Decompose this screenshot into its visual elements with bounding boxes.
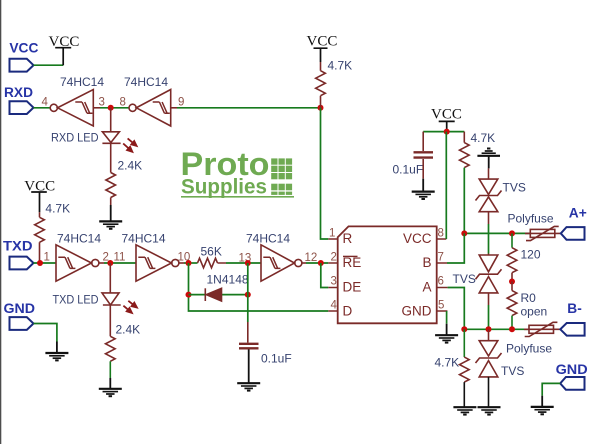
- wire B- row: [464, 328, 529, 330]
- svg-text:1: 1: [329, 228, 335, 240]
- inverter U1D 74HC14 (points right): [136, 245, 184, 281]
- IC pin stubs left: [328, 239, 337, 311]
- svg-text:4.7K: 4.7K: [328, 59, 353, 73]
- ground (under RXD 2.4K): [99, 221, 122, 228]
- junction node 10: [186, 260, 192, 266]
- polyfuse F1: [525, 226, 561, 240]
- wire node 12 to IC pin2: [306, 262, 328, 264]
- junction node 2: [107, 260, 113, 266]
- svg-text:A+: A+: [569, 206, 587, 221]
- net flag RXD: [10, 101, 34, 114]
- svg-text:3: 3: [331, 276, 337, 288]
- polyfuse F2: [524, 322, 560, 336]
- ground (left GND flag): [45, 353, 68, 360]
- svg-text:8: 8: [438, 228, 444, 240]
- svg-text:R0: R0: [521, 291, 537, 305]
- wire node 13 down to capacitor: [247, 263, 249, 322]
- capacitor 0.1uF (middle): [239, 344, 259, 349]
- inverter U1B 74HC14 (points left): [129, 90, 177, 127]
- inverter U1E 74HC14 (points right): [261, 245, 306, 281]
- net flag A+: [561, 227, 585, 240]
- wire GND flag to ground: [542, 383, 560, 395]
- ground (under TVS D3): [478, 407, 501, 414]
- wire diode row: [189, 294, 248, 296]
- svg-text:VCC: VCC: [24, 178, 55, 194]
- svg-text:TXD LED: TXD LED: [53, 293, 99, 307]
- svg-text:11: 11: [114, 252, 126, 264]
- junction B- left: [461, 326, 467, 332]
- svg-text:GND: GND: [556, 362, 588, 377]
- svg-text:2.4K: 2.4K: [118, 159, 143, 173]
- net flag GND (right): [560, 377, 584, 390]
- IC pin stubs right: [437, 239, 448, 311]
- svg-text:0.1uF: 0.1uF: [393, 163, 424, 177]
- TVS D1 (bidirectional): [476, 168, 502, 224]
- wire VCC rail down to IC pin 8: [445, 132, 447, 239]
- LED TXD arrows: [123, 301, 136, 313]
- svg-text:Polyfuse: Polyfuse: [506, 342, 552, 356]
- svg-text:VCC: VCC: [403, 231, 432, 246]
- net flag TXD: [10, 257, 34, 270]
- svg-text:4.7K: 4.7K: [435, 356, 460, 370]
- svg-text:RXD LED: RXD LED: [51, 131, 99, 145]
- TVS D2 (bidirectional, A to B): [476, 254, 502, 306]
- svg-text:74HC14: 74HC14: [124, 75, 168, 89]
- wire GND flag to ground: [34, 324, 57, 342]
- wire down to IC pin 1: [321, 108, 329, 239]
- svg-text:9: 9: [178, 97, 184, 109]
- window edge line: [0, 0, 1, 444]
- svg-text:VCC: VCC: [307, 34, 338, 50]
- svg-text:B: B: [422, 255, 431, 270]
- resistor 4.7K (A pullup): [459, 132, 469, 168]
- svg-text:74HC14: 74HC14: [246, 232, 290, 246]
- junction node 13: [245, 260, 251, 266]
- wire node 13: [226, 262, 261, 264]
- svg-text:DE: DE: [343, 280, 362, 295]
- wire VCC flag to power symbol: [34, 64, 64, 66]
- ground (under TXD 2.4K): [99, 389, 122, 396]
- svg-text:74HC14: 74HC14: [57, 232, 101, 246]
- svg-text:Supplies: Supplies: [181, 176, 267, 199]
- IC U2 RS-485 transceiver: [338, 226, 437, 323]
- wire node10 down to diode row: [189, 263, 329, 311]
- svg-text:VCC: VCC: [9, 40, 38, 55]
- wire to ground: [110, 198, 112, 206]
- wire cap to ground: [248, 350, 250, 384]
- resistor 2.4K (TXD): [106, 336, 116, 361]
- junction 120/R0: [509, 279, 515, 285]
- wire cap to ground: [422, 159, 424, 179]
- svg-text:6: 6: [438, 276, 444, 288]
- TVS D3 (bidirectional, B to GND): [476, 329, 502, 407]
- wire TVS D2 to B- row: [488, 305, 490, 329]
- svg-text:RXD: RXD: [4, 85, 33, 100]
- svg-text:A: A: [422, 280, 431, 295]
- wire IC pin5 to ground: [446, 311, 448, 324]
- ground inverted (above TVS D1): [477, 149, 500, 169]
- resistor 120 (termination): [507, 233, 517, 281]
- wire pin9 to R pullup node: [177, 107, 321, 109]
- wire TVS D1 across A+ row to TVS D2: [488, 224, 490, 254]
- ground (right GND flag): [531, 407, 554, 414]
- junction R-node: [318, 105, 324, 111]
- resistor 4.7K (B pulldown): [459, 329, 469, 407]
- resistor 56K (horizontal): [198, 258, 227, 268]
- svg-text:D: D: [343, 304, 353, 319]
- net flag B-: [560, 323, 584, 336]
- junction B- fuse node: [509, 326, 515, 332]
- svg-text:2: 2: [331, 252, 337, 264]
- junction VCC rail: [444, 129, 450, 135]
- svg-text:VCC: VCC: [49, 34, 80, 50]
- inverter U1A 74HC14 (points left, bubble at output): [50, 90, 100, 127]
- ground (under 4.7K): [453, 407, 476, 414]
- svg-text:56K: 56K: [201, 245, 222, 259]
- net flag VCC (top-left): [10, 59, 34, 72]
- svg-text:3: 3: [99, 97, 105, 109]
- svg-text:120: 120: [521, 248, 541, 262]
- svg-text:1: 1: [44, 252, 50, 264]
- logo ProtoSupplies: [181, 146, 295, 199]
- LED TXD (anode up): [102, 263, 121, 336]
- diode 1N4148 (points left): [205, 288, 221, 301]
- wire node 10: [184, 262, 198, 264]
- wire node 2/11: [104, 262, 136, 264]
- svg-text:R: R: [343, 231, 353, 246]
- power VCC symbol (mid-left, TXD pullup): [31, 192, 47, 212]
- svg-text:GND: GND: [4, 301, 36, 316]
- wire IC pin7 up to A+ row: [447, 233, 464, 263]
- resistor R0 open: [507, 282, 517, 330]
- junction TXD node: [37, 260, 43, 266]
- ground (under middle 0.1uF): [237, 383, 260, 390]
- svg-text:74HC14: 74HC14: [122, 232, 166, 246]
- ground (under bypass cap): [412, 192, 435, 199]
- svg-text:4.7K: 4.7K: [45, 202, 70, 216]
- resistor 4.7K pullup (TXD): [35, 212, 45, 263]
- power VCC symbol (top-middle): [314, 48, 328, 62]
- svg-text:B-: B-: [567, 301, 582, 316]
- wire VCC rail: [423, 131, 464, 133]
- LED RXD arrows: [123, 138, 136, 151]
- svg-text:5: 5: [438, 300, 444, 312]
- svg-text:VCC: VCC: [431, 107, 462, 123]
- wire node 12 down to IC pin3: [321, 263, 329, 288]
- junction node 3: [108, 105, 114, 111]
- wire TXD flag to inverter: [34, 262, 57, 264]
- wire to ground: [109, 361, 111, 378]
- svg-text:4: 4: [42, 97, 49, 109]
- capacitor 0.1uF (bypass): [422, 132, 424, 151]
- wire IC pin6 down to B- row: [448, 288, 465, 330]
- svg-text:1N4148: 1N4148: [207, 273, 249, 287]
- wire 4.7K down to A+ row: [463, 168, 465, 234]
- junction A+ left: [461, 230, 467, 236]
- svg-text:2.4K: 2.4K: [116, 323, 141, 337]
- wire A+ row: [464, 232, 530, 234]
- svg-text:TVS: TVS: [453, 272, 476, 286]
- wire node 3: [100, 107, 129, 109]
- svg-text:74HC14: 74HC14: [60, 75, 104, 89]
- svg-text:TXD: TXD: [3, 239, 33, 254]
- power VCC symbol (top-left): [55, 48, 71, 65]
- svg-text:open: open: [521, 305, 548, 319]
- svg-text:4.7K: 4.7K: [471, 131, 496, 145]
- inverter U1C 74HC14 (points right): [56, 245, 104, 281]
- power VCC symbol (right): [439, 121, 455, 131]
- svg-text:7: 7: [438, 252, 444, 264]
- svg-text:8: 8: [120, 97, 126, 109]
- junction diode left: [186, 292, 192, 298]
- svg-text:0.1uF: 0.1uF: [261, 352, 292, 366]
- svg-text:4: 4: [331, 300, 338, 312]
- junction node 12: [318, 260, 324, 266]
- net flag GND (left): [10, 317, 34, 330]
- resistor 2.4K (RXD): [106, 173, 116, 198]
- LED RXD (anode up): [102, 108, 120, 173]
- svg-text:RE: RE: [343, 255, 362, 270]
- svg-text:Polyfuse: Polyfuse: [508, 212, 554, 226]
- junction diode right: [245, 292, 251, 298]
- wire RXD flag to inverter U1A: [34, 107, 51, 109]
- ground (IC pin5): [435, 335, 458, 342]
- svg-text:TVS: TVS: [503, 181, 526, 195]
- svg-text:GND: GND: [402, 304, 432, 319]
- resistor R 4.7K pullup (RXD): [316, 62, 326, 108]
- junction A+ fuse node: [509, 230, 515, 236]
- svg-text:TVS: TVS: [501, 364, 524, 378]
- junction B- TVS node: [486, 326, 492, 332]
